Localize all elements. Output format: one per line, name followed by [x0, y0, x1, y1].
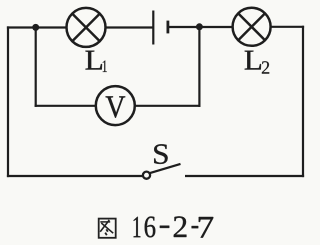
wire left rail — [7, 26, 9, 177]
battery cell — [153, 11, 168, 45]
voltmeter V — [96, 86, 135, 125]
voltmeter letter V — [106, 96, 126, 117]
wire voltmeter branch right horizontal — [135, 105, 201, 107]
caption character 图 — [99, 219, 116, 238]
caption hyphen — [160, 226, 169, 228]
caption hyphen — [192, 226, 199, 228]
wire bottom left from switch to left rail — [7, 175, 143, 177]
wire voltmeter branch left horizontal — [35, 105, 96, 107]
wire voltmeter branch left vertical — [35, 27, 37, 107]
caption digit 7 — [199, 217, 213, 238]
switch S pivot — [143, 172, 150, 179]
caption digit 1 — [134, 217, 141, 237]
label L1 letter L — [86, 51, 102, 70]
wire battery to lamp L2 — [168, 26, 233, 28]
label S — [154, 144, 167, 164]
switch S blade — [150, 164, 181, 173]
wire bottom right to switch — [185, 175, 304, 177]
caption digit 2 — [174, 216, 187, 237]
label L2 subscript 2 — [262, 61, 269, 73]
node junction dot left (voltmeter tap) — [32, 24, 39, 31]
wire L1 to battery positive plate — [106, 26, 154, 28]
wire L2 to top-right corner — [271, 26, 305, 28]
caption digit 6 — [145, 217, 156, 238]
label L1 subscript 1 — [103, 60, 107, 72]
wire voltmeter branch right vertical — [198, 27, 200, 107]
lamp L1 — [67, 8, 106, 47]
wire top-left from left rail to lamp L1 — [7, 26, 67, 28]
wire right rail — [302, 26, 304, 177]
node junction dot right (voltmeter tap) — [196, 23, 203, 30]
lamp L2 — [233, 8, 271, 46]
label L2 letter L — [245, 51, 261, 70]
